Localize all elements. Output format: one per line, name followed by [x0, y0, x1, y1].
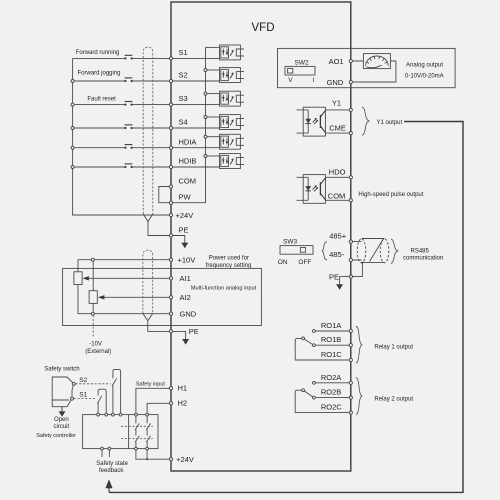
svg-text:S4: S4 — [179, 118, 188, 127]
svg-text:Open: Open — [54, 417, 69, 423]
node: bus junction HDIB — [71, 166, 74, 169]
dashed linkage lines — [121, 425, 153, 427]
opto-coupler S4 input — [172, 115, 244, 130]
svg-text:S2: S2 — [179, 71, 188, 80]
terminal S2 — [169, 79, 172, 82]
svg-text:GND: GND — [327, 78, 344, 87]
node: bus junction S4 — [71, 127, 74, 130]
contact S1 — [71, 397, 74, 400]
svg-text:I: I — [313, 77, 315, 84]
svg-text:H1: H1 — [178, 384, 188, 393]
svg-text:RO1B: RO1B — [321, 335, 341, 344]
safety controller box — [83, 415, 158, 449]
opto-coupler HDO output — [297, 175, 326, 204]
terminal S1 — [169, 57, 172, 60]
switch contact on HDIA row — [124, 147, 126, 149]
switch contact on S1 row — [124, 57, 126, 59]
svg-text:485-: 485- — [329, 250, 345, 259]
terminal PE — [169, 234, 172, 237]
terminal H1 — [169, 387, 172, 390]
terminal RO2A — [349, 381, 352, 384]
svg-text:0-10V/0-20mA: 0-10V/0-20mA — [405, 74, 444, 80]
terminal GND — [169, 312, 172, 315]
controller top pin — [97, 413, 100, 416]
wire +10V row — [78, 260, 171, 272]
shield: digital input shielded cable — [143, 47, 153, 214]
svg-text:COM: COM — [179, 176, 197, 185]
arrow: feedback to safety controller — [105, 479, 112, 488]
svg-text:Safety controller: Safety controller — [36, 433, 76, 439]
terminal H2 — [169, 402, 172, 405]
dashed link S1 — [74, 398, 96, 400]
node: +10V junction — [91, 258, 94, 261]
wire: left common bus — [73, 58, 171, 215]
terminal AO1 — [349, 59, 352, 62]
svg-text:RO2A: RO2A — [321, 373, 341, 382]
svg-text:RO1C: RO1C — [321, 350, 342, 359]
controller bottom pin — [135, 447, 138, 450]
svg-text:HDIB: HDIB — [179, 157, 197, 166]
wire: HDIB input row — [73, 166, 171, 168]
relay RO2 contacts — [295, 381, 349, 412]
svg-text:S1: S1 — [179, 48, 188, 57]
termination brace at 485 terminals — [322, 242, 327, 260]
svg-text:HDO: HDO — [329, 168, 346, 177]
VFD enclosure box — [171, 2, 351, 471]
svg-text:Power used for: Power used for — [209, 256, 249, 262]
wire H2 — [147, 403, 169, 413]
svg-text:SW2: SW2 — [295, 60, 309, 67]
brace RO2 — [356, 378, 363, 415]
svg-text:HDIA: HDIA — [179, 137, 197, 146]
wire: S2 input row — [73, 80, 171, 82]
twisted pair cable — [352, 242, 361, 260]
terminal AI2 — [169, 296, 172, 299]
svg-text:Relay 1 output: Relay 1 output — [374, 344, 413, 350]
brace Y1 output — [362, 107, 370, 135]
controller top pin — [135, 413, 138, 416]
svg-text:Fault reset: Fault reset — [87, 96, 116, 102]
terminal GND — [349, 80, 352, 83]
controller internal contact column — [135, 416, 137, 447]
wire AI2 row with wiper arrow — [104, 296, 171, 298]
controller internal contact column — [146, 416, 148, 447]
shield: analog input shielded cable — [143, 250, 153, 313]
terminal 485- — [349, 258, 352, 261]
node: bus junction S2 — [71, 80, 74, 83]
terminal HDO — [349, 176, 352, 179]
terminal RO1B — [349, 344, 352, 347]
wire: S4 input row — [73, 127, 171, 129]
S1 contact loop — [98, 389, 106, 414]
ground arrow at analog PE — [173, 331, 186, 339]
wire: S3 input row — [73, 104, 171, 106]
svg-text:Safety input: Safety input — [136, 382, 166, 388]
svg-text:PE: PE — [189, 327, 199, 336]
terminal HDIA — [169, 146, 172, 149]
terminal PW — [169, 201, 172, 204]
terminal +24V bottom — [169, 458, 172, 461]
controller bottom pin — [108, 447, 111, 450]
svg-text:Forward running: Forward running — [76, 50, 120, 56]
terminal CME — [349, 132, 352, 135]
wire H1 — [136, 388, 170, 413]
controller bottom pin — [146, 447, 149, 450]
svg-text:RO2B: RO2B — [321, 388, 341, 397]
controller top pin — [119, 413, 122, 416]
controller top pin — [105, 413, 108, 416]
svg-text:Forward jogging: Forward jogging — [78, 71, 121, 77]
switch contact on S4 row — [124, 127, 126, 129]
node: GND junction — [91, 312, 94, 315]
switch contact on HDIB row — [124, 166, 126, 168]
node: bus junction S3 — [71, 103, 74, 106]
wire GND row — [94, 313, 171, 315]
multi-function analog input box — [63, 268, 262, 325]
svg-text:Analog output: Analog output — [406, 63, 443, 69]
wire AI1 row with wiper arrow — [89, 277, 172, 279]
svg-text:-10V: -10V — [89, 341, 102, 347]
ground arrow at PE — [173, 236, 185, 244]
terminal PE analog — [169, 330, 172, 333]
switch contact on S3 row — [124, 104, 126, 106]
switch contact on S2 row — [124, 80, 126, 82]
opto-coupler S2 input — [172, 68, 244, 83]
arrow open circuit — [61, 407, 63, 412]
svg-text:Y1 output: Y1 output — [377, 120, 403, 126]
terminal COM — [169, 185, 172, 188]
wire: cable shield to PE — [352, 263, 362, 277]
terminal RO2B — [349, 396, 352, 399]
svg-text:Y1: Y1 — [332, 99, 341, 108]
svg-text:AO1: AO1 — [329, 57, 344, 66]
controller top pin — [112, 413, 115, 416]
opto-coupler S3 input — [172, 91, 244, 106]
svg-text:SW3: SW3 — [283, 238, 297, 245]
contact S2 — [72, 382, 75, 385]
terminal S3 — [169, 103, 172, 106]
svg-text:AI1: AI1 — [180, 274, 191, 283]
wire COM row — [325, 199, 349, 201]
svg-text:RO2C: RO2C — [321, 403, 342, 412]
svg-text:VFD: VFD — [252, 22, 275, 34]
wire: PW to opto supply bus — [172, 47, 206, 202]
wire HDO row — [325, 176, 349, 178]
svg-text:Safety switch: Safety switch — [44, 366, 79, 372]
terminal AI1 — [169, 277, 172, 280]
controller bottom pin — [101, 447, 104, 450]
terminal COM — [349, 199, 352, 202]
ground arrow at right PE — [340, 277, 350, 285]
wire: HDIA input row — [73, 147, 171, 149]
terminal RO1A — [349, 329, 352, 332]
svg-text:485+: 485+ — [329, 231, 347, 240]
dashed wire to external -10V — [92, 315, 94, 338]
svg-text:PE: PE — [329, 273, 339, 282]
svg-text:RO1A: RO1A — [321, 321, 341, 330]
svg-text:Safety state: Safety state — [96, 461, 128, 467]
svg-text:OFF: OFF — [298, 259, 311, 266]
node: bus junction HDIA — [71, 146, 74, 149]
opto-coupler S1 input — [172, 45, 244, 60]
terminal RO1C — [349, 358, 352, 361]
svg-text:(External): (External) — [85, 349, 111, 355]
S2 contact loop — [113, 369, 121, 413]
brace RS485 — [391, 239, 399, 263]
terminal PE right — [349, 275, 352, 278]
terminal +10V — [169, 258, 172, 261]
terminal RO2C — [349, 411, 352, 414]
svg-text:CME: CME — [329, 123, 346, 132]
meter (analog output indicator) — [352, 61, 396, 82]
svg-text:Relay 2 output: Relay 2 output — [374, 396, 413, 402]
svg-text:Multi-function analog input: Multi-function analog input — [191, 286, 257, 292]
svg-text:GND: GND — [180, 310, 197, 319]
brace RO1 — [356, 326, 363, 363]
dashed link S2 — [76, 383, 111, 385]
wire CME row — [325, 132, 349, 134]
svg-text:PE: PE — [179, 226, 189, 235]
terminal Y1 — [349, 108, 352, 111]
analog output section box — [278, 48, 456, 87]
svg-text:+10V: +10V — [178, 256, 196, 265]
opto-coupler HDIA input — [172, 134, 244, 149]
svg-text:ON: ON — [278, 259, 288, 266]
jumper bracket COM-PW — [159, 187, 171, 203]
wire: S1 input row — [73, 57, 171, 59]
wire Y1 row — [325, 109, 349, 111]
svg-text:+24V: +24V — [176, 211, 194, 220]
controller top pin — [146, 413, 149, 416]
terminal HDIB — [169, 165, 172, 168]
svg-text:RS485: RS485 — [411, 248, 430, 254]
svg-text:AI2: AI2 — [180, 293, 191, 302]
svg-text:COM: COM — [328, 192, 346, 201]
svg-text:circuit: circuit — [54, 424, 70, 430]
svg-text:frequency setting: frequency setting — [206, 263, 252, 269]
potentiometer 1 — [74, 272, 82, 285]
wire: Y1 output feedback loop — [109, 122, 463, 493]
svg-text:communication: communication — [403, 255, 443, 261]
svg-text:High-speed pulse output: High-speed pulse output — [358, 192, 423, 198]
svg-text:feedback: feedback — [99, 468, 124, 474]
terminal +24V — [169, 213, 172, 216]
safety state feedback pins — [102, 450, 109, 457]
relay RO1 contacts — [295, 330, 349, 360]
svg-text:S3: S3 — [179, 94, 188, 103]
potentiometer 2 — [92, 261, 94, 291]
opto-coupler Y1 output — [297, 107, 326, 136]
svg-text:S1: S1 — [79, 392, 87, 399]
wire +24V bottom — [136, 450, 170, 459]
svg-text:H2: H2 — [178, 399, 188, 408]
svg-text:PW: PW — [179, 193, 192, 202]
terminal 485+ — [349, 240, 352, 243]
opto-coupler HDIB input — [172, 154, 244, 169]
svg-text:+24V: +24V — [176, 455, 194, 464]
svg-text:S2: S2 — [79, 377, 87, 384]
svg-text:V: V — [288, 77, 293, 84]
terminal S4 — [169, 126, 172, 129]
